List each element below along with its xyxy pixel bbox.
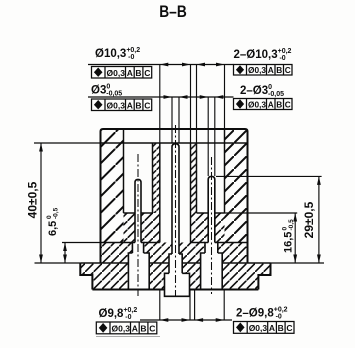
faint scan shadow under lower-left frame	[96, 336, 160, 338]
dim line 6,5	[64, 243, 66, 264]
pin 2 base block	[165, 273, 190, 296]
dim line 40	[40, 143, 42, 263]
ext: ref plane right	[271, 262, 325, 264]
svg-text:A: A	[127, 101, 133, 111]
svg-text:C: C	[285, 100, 291, 110]
ext: center pin top / 40 dim	[34, 142, 101, 144]
svg-text:C: C	[144, 101, 150, 111]
svg-text:-0,5: -0,5	[288, 219, 295, 231]
svg-text:2–Ø10,3+0,2-0: 2–Ø10,3+0,2-0	[234, 48, 292, 62]
divider wall 1	[153, 143, 160, 213]
pin 1 center line	[137, 154, 139, 296]
right cavity left wall	[196, 143, 198, 213]
divider wall 2	[191, 143, 197, 213]
right cavity floor	[197, 212, 225, 214]
svg-text:B: B	[276, 100, 282, 110]
ext: right pin top / 29 dim	[216, 175, 322, 177]
svg-text:B: B	[276, 65, 282, 75]
subfloor band	[124, 213, 136, 243]
ext: center pin edges up	[172, 97, 179, 143]
pin 3 collar	[205, 243, 218, 254]
svg-text:B: B	[135, 101, 141, 111]
svg-text:Ø0,3: Ø0,3	[107, 68, 126, 78]
dim line bottom (counterbores)	[140, 319, 232, 321]
right wall inner edge	[224, 129, 226, 213]
dim line top A (cavities)	[88, 64, 234, 66]
pin 3 (right) outline	[208, 176, 215, 242]
svg-text:Ø0,3: Ø0,3	[112, 324, 131, 334]
ext: center cavity right up	[190, 65, 192, 144]
pin 2 center line	[175, 125, 177, 297]
svg-text:Ø0,3: Ø0,3	[249, 323, 268, 333]
center cavity left wall	[159, 143, 161, 243]
pin 2 (center) outline	[172, 144, 179, 254]
insulator bottom edge	[101, 242, 248, 244]
pin 2 collar	[169, 254, 182, 273]
svg-text:C: C	[286, 323, 292, 333]
svg-text:C: C	[285, 65, 291, 75]
svg-text:2–Ø9,8+0,2-0: 2–Ø9,8+0,2-0	[236, 307, 288, 321]
body top rim	[101, 129, 248, 263]
ext: right counterbore down	[195, 290, 225, 321]
pin 1 base block	[128, 253, 149, 290]
svg-text:Ø0,3: Ø0,3	[248, 65, 266, 75]
svg-text:40±0,5: 40±0,5	[26, 181, 40, 218]
svg-text:A: A	[127, 68, 133, 78]
ext: cavity floor / 16,5 dim	[225, 212, 298, 214]
svg-text:B: B	[135, 68, 141, 78]
FCF4	[234, 99, 293, 110]
svg-text:Ø0,3: Ø0,3	[107, 101, 126, 111]
pin 3 center line	[211, 157, 213, 294]
ext: right cavity left up	[196, 65, 198, 144]
FCF3	[234, 65, 293, 76]
svg-text:B: B	[278, 323, 284, 333]
FCF1	[92, 67, 152, 79]
left flange step	[80, 263, 92, 290]
svg-text:B–B: B–B	[159, 2, 187, 21]
ext: ref plane left	[35, 262, 81, 264]
svg-text:16,5: 16,5	[283, 232, 295, 253]
insulator face edge	[101, 142, 248, 144]
svg-text:Ø0,3: Ø0,3	[248, 100, 266, 110]
svg-text:Ø10,3+0,2-0: Ø10,3+0,2-0	[95, 47, 140, 61]
ext: right pin edges up	[208, 97, 215, 176]
svg-text:C: C	[144, 68, 150, 78]
dim line 16,5	[294, 213, 296, 263]
right wall section	[225, 129, 248, 243]
left cavity wall right	[152, 143, 154, 213]
left wall section	[101, 129, 124, 243]
ext: center cavity left up	[159, 65, 161, 144]
svg-text:A: A	[132, 324, 138, 334]
svg-text:B: B	[140, 324, 146, 334]
dim text 16,5	[282, 219, 295, 253]
right flange step	[258, 263, 270, 290]
pin 1 collar	[132, 243, 143, 254]
dim line 29	[318, 176, 320, 263]
svg-text:A: A	[269, 323, 275, 333]
FCF5	[96, 322, 157, 334]
base band	[101, 243, 133, 254]
left wall inner edge	[123, 129, 125, 213]
svg-text:C: C	[149, 324, 155, 334]
bottom face	[92, 289, 258, 291]
ext: center counterbore down	[160, 290, 190, 321]
dim text 6,5	[46, 207, 60, 236]
center cavity right wall	[190, 143, 192, 243]
FCF6	[234, 322, 295, 334]
pin 3 base block	[201, 253, 223, 290]
ext: right cavity right up	[224, 65, 226, 130]
pin 1 (left) outline	[135, 179, 141, 242]
ext: base bottom / 6,5 dim	[62, 242, 101, 244]
FCF2	[92, 99, 152, 111]
svg-text:A: A	[268, 65, 274, 75]
base/flange joint edge	[80, 262, 270, 264]
svg-text:29±0,5: 29±0,5	[302, 201, 316, 238]
flange band	[80, 263, 128, 290]
left cavity floor	[124, 212, 153, 214]
svg-text:6,5: 6,5	[47, 221, 59, 236]
dim line top B (pins)	[88, 96, 234, 98]
svg-text:A: A	[268, 100, 274, 110]
svg-text:-0,5: -0,5	[53, 207, 60, 219]
